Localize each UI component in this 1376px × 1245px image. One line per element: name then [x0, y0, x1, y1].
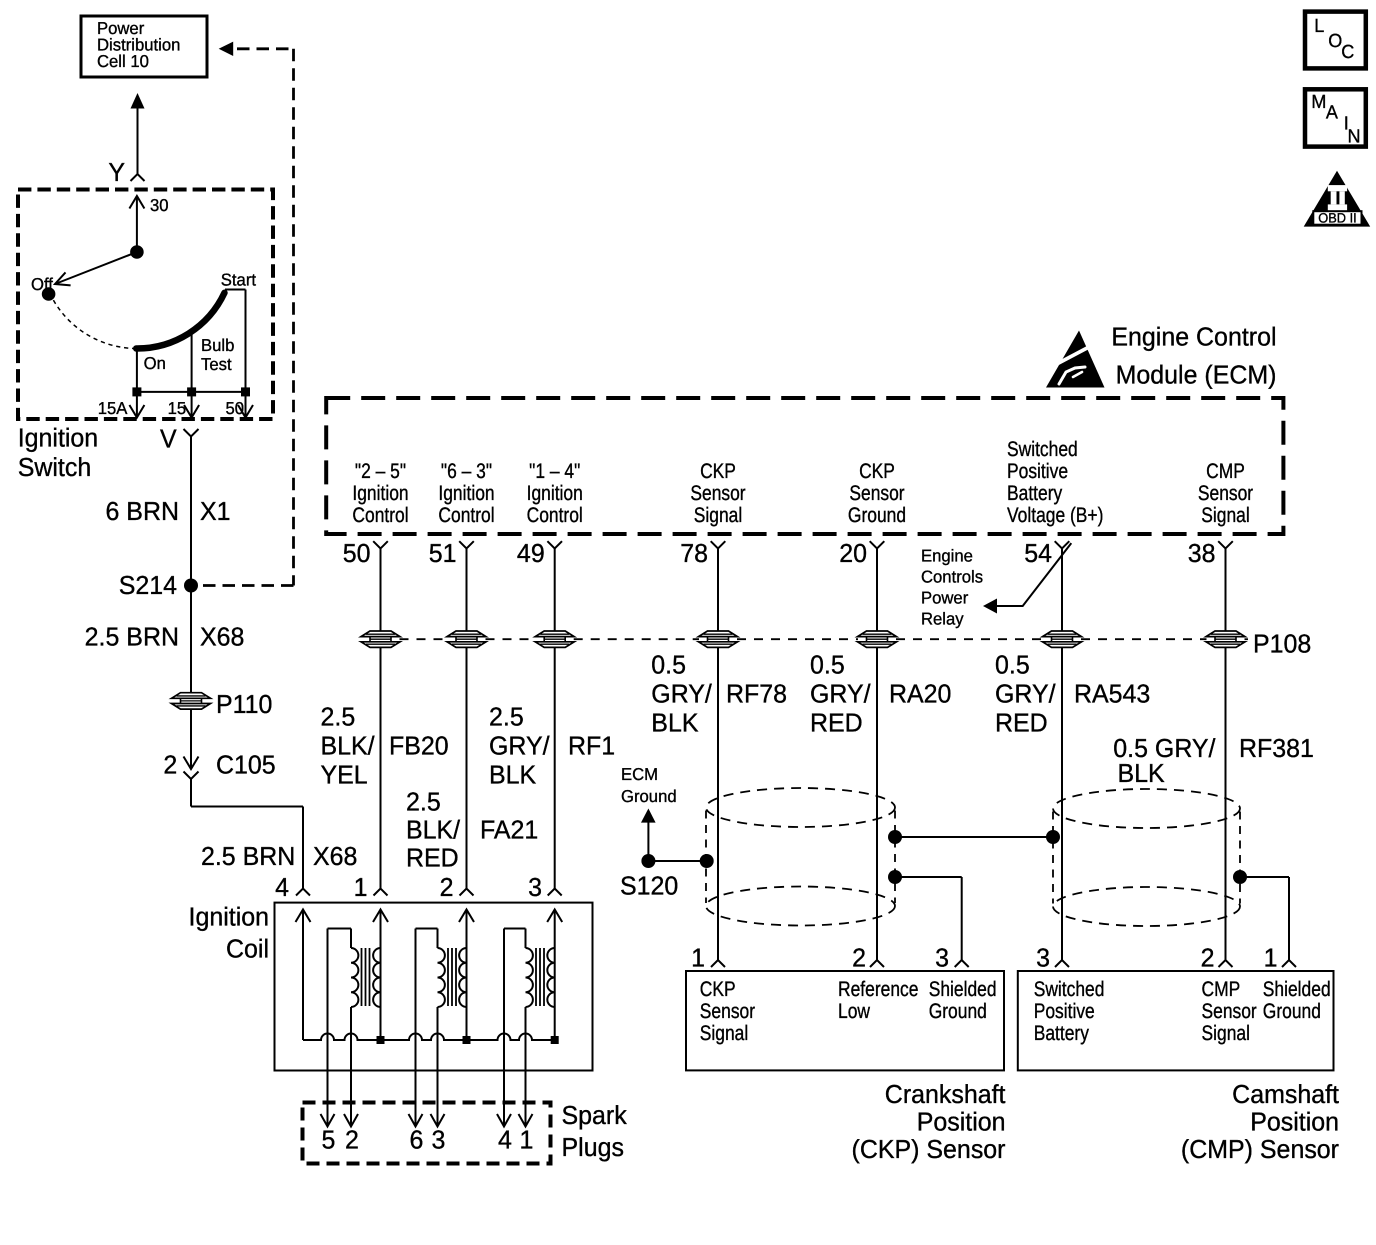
- svg-text:BLK: BLK: [1118, 758, 1166, 788]
- svg-text:CKP: CKP: [700, 460, 736, 483]
- svg-text:YEL: YEL: [321, 760, 368, 790]
- svg-text:Ignition: Ignition: [352, 482, 408, 505]
- svg-text:BLK: BLK: [489, 760, 537, 790]
- svg-text:2: 2: [345, 1125, 359, 1155]
- svg-text:30: 30: [150, 195, 169, 215]
- svg-text:51: 51: [429, 538, 457, 568]
- svg-text:4: 4: [498, 1125, 512, 1155]
- svg-text:20: 20: [839, 538, 867, 568]
- svg-text:49: 49: [517, 538, 545, 568]
- svg-text:CMP: CMP: [1202, 978, 1241, 1001]
- svg-text:Camshaft: Camshaft: [1232, 1079, 1340, 1109]
- svg-text:Control: Control: [527, 504, 583, 527]
- svg-text:0.5: 0.5: [810, 650, 845, 680]
- svg-text:Switch: Switch: [18, 452, 92, 482]
- svg-text:RF1: RF1: [568, 731, 615, 761]
- svg-text:"6 – 3": "6 – 3": [441, 460, 492, 483]
- svg-text:2: 2: [852, 943, 866, 973]
- svg-text:Sensor: Sensor: [700, 1000, 755, 1023]
- svg-text:2.5: 2.5: [489, 702, 524, 732]
- svg-text:Sensor: Sensor: [690, 482, 745, 505]
- svg-text:Sensor: Sensor: [1202, 1000, 1257, 1023]
- svg-text:A: A: [1326, 103, 1338, 124]
- svg-text:0.5: 0.5: [995, 650, 1030, 680]
- svg-text:54: 54: [1024, 538, 1052, 568]
- svg-text:Module (ECM): Module (ECM): [1116, 360, 1277, 390]
- svg-text:N: N: [1348, 127, 1361, 148]
- svg-text:Reference: Reference: [838, 978, 918, 1001]
- svg-text:Plugs: Plugs: [562, 1132, 624, 1162]
- svg-text:Shielded: Shielded: [929, 978, 997, 1001]
- svg-text:P110: P110: [216, 689, 272, 719]
- svg-text:Control: Control: [438, 504, 494, 527]
- svg-text:OBD II: OBD II: [1318, 211, 1356, 226]
- svg-text:(CMP) Sensor: (CMP) Sensor: [1181, 1134, 1339, 1164]
- svg-text:BLK/: BLK/: [406, 815, 461, 845]
- svg-text:15: 15: [168, 398, 187, 418]
- svg-text:Position: Position: [917, 1107, 1006, 1137]
- svg-text:C: C: [1341, 42, 1354, 63]
- svg-text:1: 1: [354, 872, 368, 902]
- svg-text:Relay: Relay: [921, 609, 964, 629]
- svg-text:FA21: FA21: [480, 815, 538, 845]
- svg-text:ECM: ECM: [621, 764, 658, 784]
- svg-text:Sensor: Sensor: [1198, 482, 1253, 505]
- svg-text:C105: C105: [216, 750, 276, 780]
- svg-text:Bulb: Bulb: [201, 335, 234, 355]
- svg-text:Controls: Controls: [921, 567, 983, 587]
- svg-text:Ignition: Ignition: [18, 422, 98, 452]
- svg-text:GRY/: GRY/: [651, 679, 712, 709]
- svg-text:Crankshaft: Crankshaft: [885, 1079, 1006, 1109]
- svg-text:2.5: 2.5: [321, 702, 356, 732]
- svg-text:Battery: Battery: [1007, 482, 1063, 505]
- svg-text:RA543: RA543: [1074, 679, 1150, 709]
- svg-text:Coil: Coil: [226, 934, 269, 964]
- svg-text:2: 2: [163, 750, 177, 780]
- svg-text:S120: S120: [620, 871, 678, 901]
- svg-text:RF78: RF78: [726, 679, 787, 709]
- svg-text:1: 1: [691, 943, 705, 973]
- svg-text:X1: X1: [200, 496, 231, 526]
- svg-text:2.5: 2.5: [406, 787, 441, 817]
- svg-text:3: 3: [528, 872, 542, 902]
- svg-text:Engine Control: Engine Control: [1111, 322, 1276, 352]
- svg-text:Positive: Positive: [1034, 1000, 1095, 1023]
- svg-text:Ignition: Ignition: [438, 482, 494, 505]
- svg-text:2: 2: [1201, 943, 1215, 973]
- svg-text:L: L: [1314, 16, 1324, 37]
- svg-text:Off: Off: [31, 274, 53, 294]
- svg-text:RA20: RA20: [889, 679, 951, 709]
- svg-text:GRY/: GRY/: [995, 679, 1056, 709]
- svg-text:2: 2: [440, 872, 454, 902]
- svg-text:Ground: Ground: [1263, 1000, 1321, 1023]
- svg-text:"2 – 5": "2 – 5": [355, 460, 406, 483]
- svg-text:CKP: CKP: [700, 978, 736, 1001]
- svg-text:6: 6: [410, 1125, 424, 1155]
- svg-text:FB20: FB20: [389, 731, 449, 761]
- svg-text:3: 3: [935, 943, 949, 973]
- svg-text:78: 78: [680, 538, 708, 568]
- svg-text:RED: RED: [995, 708, 1048, 738]
- svg-text:Signal: Signal: [694, 504, 742, 527]
- svg-text:Cell 10: Cell 10: [97, 51, 149, 71]
- svg-text:50: 50: [343, 538, 371, 568]
- svg-text:6 BRN: 6 BRN: [105, 496, 179, 526]
- svg-text:CMP: CMP: [1206, 460, 1245, 483]
- svg-text:Ground: Ground: [848, 504, 906, 527]
- svg-text:Signal: Signal: [700, 1022, 748, 1045]
- svg-text:BLK: BLK: [651, 708, 699, 738]
- svg-text:Shielded: Shielded: [1263, 978, 1331, 1001]
- svg-text:Spark: Spark: [562, 1100, 628, 1130]
- svg-text:Start: Start: [221, 270, 256, 290]
- svg-text:50: 50: [226, 398, 245, 418]
- svg-text:X68: X68: [313, 841, 357, 871]
- svg-text:O: O: [1328, 31, 1342, 52]
- svg-text:Engine: Engine: [921, 546, 973, 566]
- svg-text:Positive: Positive: [1007, 460, 1068, 483]
- svg-text:Low: Low: [838, 1000, 871, 1023]
- svg-text:V: V: [160, 424, 177, 454]
- svg-text:Ground: Ground: [621, 786, 677, 806]
- svg-text:"1 – 4": "1 – 4": [529, 460, 580, 483]
- svg-text:CKP: CKP: [859, 460, 895, 483]
- svg-text:3: 3: [432, 1125, 446, 1155]
- svg-text:Ignition: Ignition: [189, 902, 269, 932]
- svg-text:(CKP) Sensor: (CKP) Sensor: [852, 1134, 1006, 1164]
- svg-text:RED: RED: [406, 843, 459, 873]
- svg-text:5: 5: [322, 1125, 336, 1155]
- svg-text:Switched: Switched: [1034, 978, 1105, 1001]
- svg-text:2.5 BRN: 2.5 BRN: [201, 841, 295, 871]
- svg-text:Sensor: Sensor: [849, 482, 904, 505]
- svg-text:4: 4: [275, 872, 289, 902]
- svg-text:On: On: [144, 353, 166, 373]
- svg-text:RF381: RF381: [1239, 733, 1314, 763]
- svg-text:GRY/: GRY/: [810, 679, 871, 709]
- svg-text:S214: S214: [119, 570, 177, 600]
- svg-text:1: 1: [1264, 943, 1278, 973]
- svg-text:38: 38: [1188, 538, 1216, 568]
- svg-text:BLK/: BLK/: [321, 731, 376, 761]
- svg-text:Signal: Signal: [1201, 504, 1249, 527]
- svg-text:Voltage (B+): Voltage (B+): [1007, 504, 1103, 527]
- svg-text:Test: Test: [201, 354, 232, 374]
- svg-text:2.5 BRN: 2.5 BRN: [85, 622, 179, 652]
- svg-text:Switched: Switched: [1007, 438, 1078, 461]
- svg-text:Power: Power: [921, 588, 969, 608]
- svg-text:M: M: [1311, 92, 1326, 113]
- svg-text:Battery: Battery: [1034, 1022, 1090, 1045]
- svg-text:0.5: 0.5: [651, 650, 686, 680]
- svg-text:Signal: Signal: [1202, 1022, 1250, 1045]
- svg-text:3: 3: [1036, 943, 1050, 973]
- svg-text:GRY/: GRY/: [489, 731, 550, 761]
- svg-text:Y: Y: [108, 157, 125, 187]
- svg-text:Position: Position: [1250, 1107, 1339, 1137]
- svg-text:Control: Control: [352, 504, 408, 527]
- svg-text:Ignition: Ignition: [527, 482, 583, 505]
- svg-text:X68: X68: [200, 622, 244, 652]
- svg-text:P108: P108: [1253, 629, 1311, 659]
- svg-text:1: 1: [520, 1125, 534, 1155]
- svg-text:Ground: Ground: [929, 1000, 987, 1023]
- svg-text:RED: RED: [810, 708, 863, 738]
- svg-text:15A: 15A: [98, 398, 128, 418]
